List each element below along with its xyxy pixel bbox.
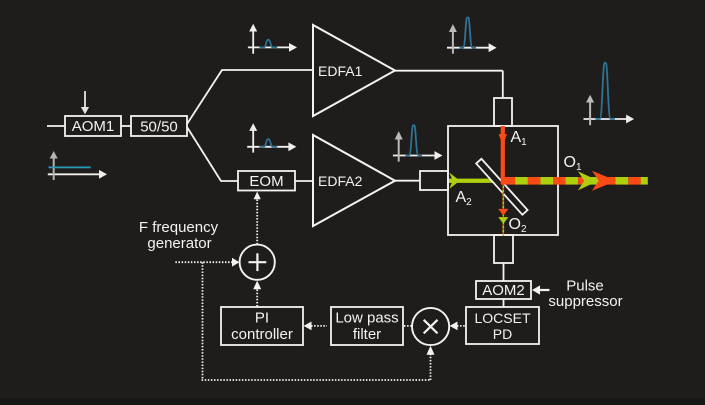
- O1 big red arrow: [592, 171, 616, 191]
- wire input to AOM1: [47, 125, 65, 127]
- EOM box: [238, 171, 295, 191]
- beam O1 dashed red/green: [501, 177, 648, 185]
- svg-text:F frequency: F frequency: [139, 219, 219, 236]
- pulse graph before EDFA1: [248, 24, 297, 54]
- bottom port: [494, 235, 513, 263]
- dotted wire adder to EOM: [254, 192, 261, 245]
- dotted wire F generator to adder: [175, 258, 239, 267]
- EDFA1 amplifier: [313, 25, 395, 116]
- wire 50/50 lower branch diagonal: [187, 127, 221, 181]
- wire to EOM: [221, 180, 239, 182]
- tall output pulse curve: [596, 63, 615, 119]
- dotted wire low pass filter to PI controller: [304, 322, 327, 331]
- wire to EDFA1: [222, 69, 314, 71]
- wire 50/50 upper branch diagonal: [187, 70, 222, 124]
- bottom dark band: [0, 398, 705, 405]
- wire EDFA2 output: [395, 180, 420, 182]
- PI controller box: [221, 307, 303, 345]
- label F frequency generator: [139, 219, 219, 252]
- 50/50 splitter box: [131, 116, 187, 136]
- svg-text:LOCSET: LOCSET: [474, 310, 530, 326]
- dotted wire LOCSET PD to mixer: [450, 322, 465, 331]
- AOM1 box: [65, 116, 121, 136]
- amplified pulse graph after EDFA2: [393, 125, 443, 162]
- dotted wire PI controller to adder: [253, 281, 261, 307]
- beam A1 red: [499, 126, 507, 178]
- svg-text:controller: controller: [231, 326, 293, 343]
- combiner box: [448, 126, 558, 235]
- wire down to top port: [502, 71, 504, 98]
- CW input graph axes: [48, 151, 107, 180]
- svg-text:AOM1: AOM1: [72, 118, 115, 135]
- output pulse graph: [584, 63, 635, 126]
- CW teal line: [49, 166, 91, 168]
- EDFA2 amplifier: [313, 135, 395, 226]
- dotted feedback branch down: [202, 262, 204, 380]
- svg-text:Low pass: Low pass: [335, 310, 398, 327]
- dotted feedback bottom run: [202, 379, 431, 381]
- dotted wire mixer to low pass filter: [404, 325, 412, 327]
- tall pulse curve: [460, 17, 476, 47]
- top port: [494, 98, 512, 126]
- RF drive arrow into AOM1: [81, 91, 89, 114]
- left port: [420, 171, 448, 190]
- Low pass filter box: [331, 307, 403, 345]
- adder circle: [240, 245, 275, 280]
- svg-text:EDFA1: EDFA1: [318, 63, 363, 79]
- svg-text:suppressor: suppressor: [548, 293, 622, 310]
- small pulse curve: [259, 139, 277, 147]
- amplified pulse graph after EDFA1: [447, 17, 497, 53]
- wire AOM1 to 50/50: [121, 125, 131, 127]
- pulse graph before EDFA2: [247, 123, 296, 152]
- svg-text:AOM2: AOM2: [482, 282, 525, 299]
- pulse suppressor arrow: [532, 285, 550, 294]
- beam A2 green: [449, 173, 503, 189]
- svg-text:Pulse: Pulse: [566, 278, 604, 295]
- mixer circle: [412, 308, 449, 345]
- beam O2 dashed: [498, 184, 508, 236]
- wire EOM to EDFA2: [295, 180, 313, 182]
- dotted feedback up to mixer: [427, 346, 435, 380]
- svg-text:generator: generator: [147, 235, 211, 252]
- wire EDFA1 output: [395, 70, 503, 72]
- svg-text:50/50: 50/50: [140, 119, 178, 136]
- svg-text:PI: PI: [255, 310, 269, 327]
- small pulse curve: [259, 40, 277, 48]
- wire bottom port to AOM2: [503, 263, 505, 281]
- label pulse suppressor: [548, 278, 622, 311]
- O1 big green arrow: [578, 171, 598, 190]
- svg-text:filter: filter: [353, 326, 381, 343]
- svg-text:EOM: EOM: [249, 173, 283, 190]
- AOM2 box: [476, 281, 531, 299]
- wire AOM2 to LOCSET PD: [503, 299, 505, 307]
- svg-text:EDFA2: EDFA2: [318, 173, 363, 189]
- svg-text:PD: PD: [493, 326, 512, 342]
- tall pulse curve: [406, 125, 422, 155]
- LOCSET PD box: [466, 307, 539, 344]
- beam splitter: [476, 159, 527, 215]
